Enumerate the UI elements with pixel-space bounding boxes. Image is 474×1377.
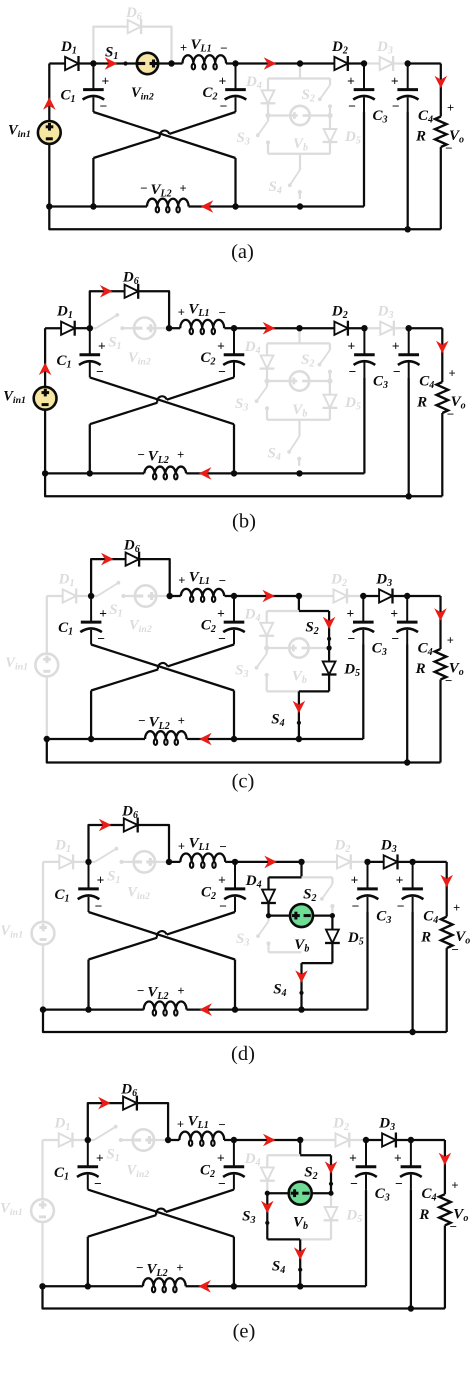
capacitor C2 (d) bbox=[234, 862, 236, 889]
node wire into bridge (e) bbox=[299, 1140, 301, 1155]
bridge top-left wire (c) bbox=[267, 610, 299, 612]
svg-text:−: − bbox=[140, 181, 147, 196]
svg-text:−: − bbox=[219, 305, 226, 320]
current arrow to load bbox=[440, 875, 453, 888]
bridge mid-left junction (b) bbox=[264, 378, 269, 383]
wire C2-node bbox=[235, 861, 302, 863]
capacitor C1 (d) bbox=[88, 862, 90, 889]
svg-text:−: − bbox=[136, 1260, 143, 1275]
svg-text:−: − bbox=[350, 1176, 358, 1191]
svg-text:−: − bbox=[451, 942, 458, 957]
wire left X-leg down bbox=[87, 960, 89, 1010]
node wire into bridge (c) bbox=[298, 596, 300, 611]
wire cross-connection C2-bottom to left (with hop) bbox=[168, 645, 235, 667]
diode D6 branch (c) bbox=[91, 559, 126, 596]
wire bottom return rail bbox=[43, 1286, 445, 1308]
wire C4-right rail bbox=[408, 62, 441, 64]
switch S3 (e) bbox=[266, 1193, 268, 1239]
current arrow through S1 bbox=[105, 57, 118, 70]
svg-text:+: + bbox=[98, 339, 106, 354]
wire left X-leg down bbox=[92, 158, 94, 207]
svg-text:+: + bbox=[392, 339, 400, 354]
current arrow through S3 bbox=[261, 1201, 274, 1214]
svg-text:+: + bbox=[177, 448, 184, 462]
diode D5 (b) bbox=[329, 381, 331, 395]
svg-text:R: R bbox=[418, 1207, 429, 1223]
node dots bbox=[85, 859, 91, 865]
svg-text:−: − bbox=[97, 631, 105, 646]
bridge mid-right junction (d) bbox=[330, 913, 335, 918]
svg-text:−: − bbox=[219, 898, 227, 913]
wire C4-right rail bbox=[409, 327, 443, 329]
svg-text:−: − bbox=[445, 141, 452, 156]
capacitor C1 (e) bbox=[87, 1140, 89, 1167]
wire cross-connection C1-bottom to right bbox=[91, 645, 234, 691]
switch S4 (d) bbox=[300, 963, 302, 1010]
svg-text:+: + bbox=[177, 1118, 184, 1132]
bridge top-right wire (d) bbox=[302, 876, 333, 878]
current arrow through L2 bbox=[199, 1003, 212, 1016]
bridge top-right wire (e) bbox=[300, 1154, 331, 1156]
current arrow through L2 bbox=[198, 1280, 211, 1293]
switch S2 (c) bbox=[328, 611, 330, 648]
wire left X-leg down bbox=[89, 424, 91, 473]
svg-text:+: + bbox=[180, 41, 187, 55]
current arrow up (input) bbox=[39, 363, 52, 376]
svg-text:+: + bbox=[394, 1151, 402, 1166]
svg-text:+: + bbox=[97, 873, 105, 888]
diode D3 (b) bbox=[364, 327, 380, 329]
voltage source Vin1 (e) bbox=[41, 1140, 43, 1199]
switch S1 (d) bbox=[89, 861, 95, 863]
wire left X-leg down bbox=[90, 691, 92, 740]
wire right X-leg down bbox=[233, 1237, 235, 1287]
switch S1 (b) bbox=[90, 327, 96, 329]
svg-text:−: − bbox=[138, 713, 145, 728]
wire C2-node bbox=[234, 595, 299, 597]
wire C4-right rail bbox=[411, 1139, 445, 1141]
svg-text:−: − bbox=[100, 99, 108, 114]
switch S2 (a) bbox=[329, 79, 331, 86]
voltage source Vin2 (b) bbox=[134, 318, 155, 339]
svg-text:+: + bbox=[176, 1261, 183, 1275]
switch S2 (e) bbox=[330, 1155, 332, 1193]
wire cross-connection C2-bottom to left (with hop) bbox=[167, 912, 235, 935]
svg-text:+: + bbox=[178, 839, 185, 853]
voltage source Vin2 (d) bbox=[134, 851, 155, 872]
wire left X-leg down bbox=[87, 1237, 89, 1287]
bridge bottom-left wire (a) bbox=[268, 153, 300, 155]
switch S4 (c) bbox=[298, 691, 300, 739]
svg-text:−: − bbox=[397, 898, 405, 913]
svg-text:+: + bbox=[177, 984, 184, 998]
bridge bottom-right wire (a) bbox=[300, 153, 330, 155]
wire cross-connection C1-bottom to right bbox=[89, 912, 236, 960]
diode D2 (b) bbox=[300, 327, 335, 329]
capacitor C2 (a) bbox=[235, 64, 237, 90]
current arrow to load bbox=[434, 608, 447, 621]
wire right X-leg down bbox=[234, 158, 236, 207]
svg-text:+: + bbox=[217, 1151, 225, 1166]
switch S4 (e) bbox=[299, 1239, 301, 1286]
svg-text:−: − bbox=[137, 447, 144, 462]
wire right X-leg down bbox=[233, 691, 235, 740]
node dots bbox=[87, 325, 93, 331]
svg-text:+: + bbox=[391, 74, 399, 89]
svg-text:+: + bbox=[349, 1151, 357, 1166]
inductor L2 (c) bbox=[47, 738, 145, 740]
svg-text:−: − bbox=[391, 631, 399, 646]
current arrow toward node bbox=[263, 322, 276, 335]
current arrow through S4 bbox=[294, 1247, 307, 1260]
svg-text:−: − bbox=[218, 631, 226, 646]
svg-text:−: − bbox=[220, 99, 228, 114]
svg-text:−: − bbox=[392, 99, 400, 114]
current arrow toward node bbox=[264, 57, 277, 70]
current arrow toward node bbox=[264, 856, 277, 869]
circuit panel (a) bbox=[8, 5, 464, 263]
svg-text:−: − bbox=[94, 1176, 102, 1191]
svg-text:−: − bbox=[395, 1176, 403, 1191]
svg-text:−: − bbox=[219, 839, 226, 854]
current arrow to load bbox=[436, 341, 449, 354]
current arrow toward node bbox=[262, 590, 275, 603]
battery source Vb (d) bbox=[269, 914, 290, 916]
svg-text:−: − bbox=[352, 898, 360, 913]
circuit panel (b) bbox=[3, 270, 465, 533]
voltage source Vin2 (a) bbox=[137, 53, 158, 74]
inductor L1 (a) bbox=[172, 62, 183, 64]
current arrow through S2 bbox=[323, 617, 336, 630]
node dots bbox=[88, 593, 94, 599]
wire cross-connection C1-bottom to right bbox=[90, 377, 234, 424]
svg-text:+: + bbox=[217, 606, 225, 621]
svg-text:+: + bbox=[451, 1179, 458, 1193]
capacitor C3 (e) bbox=[365, 1140, 367, 1167]
bridge mid-left junction (a) bbox=[265, 113, 270, 118]
svg-text:+: + bbox=[347, 74, 355, 89]
current arrow through D6 bbox=[98, 1097, 111, 1110]
svg-text:(c): (c) bbox=[232, 771, 255, 793]
diode D5 (c) bbox=[328, 648, 330, 662]
resistor R (a) bbox=[440, 64, 442, 117]
wire C2-node bbox=[234, 1139, 300, 1141]
current arrow through L2 bbox=[199, 467, 212, 480]
svg-text:−: − bbox=[220, 41, 227, 56]
capacitor C3 (b) bbox=[363, 328, 365, 355]
svg-text:−: − bbox=[349, 364, 357, 379]
diode D1 (d) bbox=[43, 861, 60, 863]
svg-text:+: + bbox=[447, 634, 454, 648]
bridge bottom-left wire (c) bbox=[267, 690, 299, 692]
svg-text:+: + bbox=[178, 574, 185, 588]
wire bottom return rail bbox=[47, 739, 441, 763]
resistor R (d) bbox=[446, 862, 448, 917]
diode D3 (a) bbox=[364, 62, 380, 64]
svg-text:R: R bbox=[416, 394, 427, 410]
resistor R (e) bbox=[444, 1140, 446, 1194]
diode D2 (d) bbox=[302, 861, 338, 863]
battery source Vb (b) bbox=[267, 380, 290, 382]
bridge top-right wire (a) bbox=[300, 77, 330, 79]
inductor L2 (e) bbox=[43, 1285, 143, 1287]
diode D5 (e) bbox=[330, 1193, 332, 1207]
diode D1 (b) bbox=[45, 327, 61, 329]
switch S1 (c) bbox=[91, 595, 97, 597]
bridge bottom-right wire (d) bbox=[302, 962, 333, 964]
diode D2 (a) bbox=[300, 62, 335, 64]
switch S3 (a) bbox=[267, 116, 269, 122]
wire C2-node bbox=[234, 327, 300, 329]
diode D6 branch (d) bbox=[89, 825, 125, 862]
resistor R (c) bbox=[439, 596, 441, 649]
wire C2-node bbox=[236, 62, 301, 64]
svg-text:+: + bbox=[348, 339, 356, 354]
svg-text:+: + bbox=[346, 606, 354, 621]
svg-text:+: + bbox=[217, 339, 225, 354]
wire C4-right rail bbox=[413, 861, 447, 863]
bridge mid-left junction (e) bbox=[265, 1191, 270, 1196]
svg-text:(e): (e) bbox=[233, 1321, 256, 1343]
resistor R (b) bbox=[441, 328, 443, 382]
diode D4 (b) bbox=[266, 343, 268, 355]
svg-text:(b): (b) bbox=[232, 511, 256, 533]
node dots bbox=[85, 1137, 91, 1143]
inductor L2 (a) bbox=[49, 205, 147, 207]
wire cross-connection C1-bottom to right bbox=[88, 1190, 234, 1237]
capacitor C1 (a) bbox=[92, 64, 94, 90]
node wire into bridge (a) bbox=[299, 64, 301, 79]
svg-text:R: R bbox=[415, 661, 426, 677]
battery source Vb (c) bbox=[267, 647, 290, 649]
wire cross-connection C2-bottom to left (with hop) bbox=[167, 377, 234, 399]
bridge bottom-right wire (e) bbox=[300, 1238, 331, 1240]
diode D6 branch (e) bbox=[88, 1103, 124, 1140]
current arrow through D6 bbox=[99, 819, 112, 832]
svg-text:(a): (a) bbox=[231, 241, 254, 263]
svg-text:R: R bbox=[420, 929, 431, 945]
svg-text:+: + bbox=[449, 366, 456, 380]
switch S1 (a) bbox=[93, 62, 137, 64]
node wire into bridge (d) bbox=[300, 862, 302, 878]
diode D6 branch (b) bbox=[90, 291, 125, 328]
svg-text:−: − bbox=[96, 364, 104, 379]
svg-text:+: + bbox=[102, 74, 110, 89]
diode D4 (c) bbox=[266, 611, 268, 623]
switch S2 (d) bbox=[331, 877, 333, 884]
diode D3 (e) bbox=[366, 1139, 382, 1141]
inductor L1 (e) bbox=[168, 1139, 179, 1141]
inductor L1 (d) bbox=[169, 861, 180, 863]
bridge mid-left junction (d) bbox=[266, 913, 271, 918]
svg-text:+: + bbox=[99, 606, 107, 621]
switch S1 (e) bbox=[88, 1139, 94, 1141]
current arrow through D6 bbox=[101, 553, 114, 566]
wire bottom return rail bbox=[43, 1010, 447, 1032]
current arrow toward node bbox=[263, 1134, 276, 1147]
svg-text:−: − bbox=[348, 99, 356, 114]
wire cross-connection C2-bottom to left (with hop) bbox=[166, 1190, 234, 1212]
diode D2 (c) bbox=[299, 595, 334, 597]
current arrow to load bbox=[435, 76, 448, 89]
svg-text:−: − bbox=[218, 364, 226, 379]
svg-text:−: − bbox=[218, 1176, 226, 1191]
current arrow through S4 bbox=[293, 701, 306, 714]
diode D3 (d) bbox=[368, 861, 385, 863]
wire right X-leg down bbox=[233, 424, 235, 473]
svg-text:−: − bbox=[450, 1219, 457, 1234]
switch S3 (c) bbox=[266, 648, 268, 654]
current arrow through L2 bbox=[199, 733, 212, 746]
wire C4-right rail bbox=[407, 595, 440, 597]
svg-text:−: − bbox=[393, 364, 401, 379]
capacitor C1 (b) bbox=[89, 328, 91, 355]
current arrow through D6 bbox=[100, 285, 113, 298]
svg-text:+: + bbox=[396, 873, 404, 888]
voltage source Vin2 (e) bbox=[133, 1129, 154, 1150]
diode D3 (c) bbox=[363, 595, 379, 597]
svg-text:+: + bbox=[178, 714, 185, 728]
bridge bottom-left wire (e) bbox=[267, 1238, 300, 1240]
svg-text:−: − bbox=[137, 983, 144, 998]
inductor L1 (b) bbox=[169, 327, 180, 329]
switch S3 (d) bbox=[267, 916, 269, 922]
svg-text:R: R bbox=[415, 129, 426, 145]
circuit panel (d) bbox=[0, 803, 470, 1065]
bridge bottom-left wire (b) bbox=[267, 419, 300, 421]
svg-text:+: + bbox=[447, 101, 454, 115]
capacitor C3 (a) bbox=[363, 64, 365, 90]
capacitor C4 (b) bbox=[408, 328, 410, 355]
diode D1 (a) bbox=[49, 62, 65, 64]
capacitor C2 (e) bbox=[233, 1140, 235, 1167]
capacitor C4 (e) bbox=[410, 1140, 412, 1167]
bridge top-right wire (b) bbox=[300, 342, 330, 344]
current arrow through L2 bbox=[201, 200, 214, 213]
switch S2 (b) bbox=[329, 343, 331, 350]
capacitor C4 (a) bbox=[407, 64, 409, 90]
node dots bbox=[90, 60, 96, 66]
circuit panel (c) bbox=[5, 538, 463, 793]
voltage source Vin2 (c) bbox=[135, 585, 156, 606]
switch S4 (a) bbox=[299, 154, 301, 170]
diode D1 (e) bbox=[43, 1139, 60, 1141]
svg-text:+: + bbox=[96, 1151, 104, 1166]
capacitor C1 (c) bbox=[90, 596, 92, 622]
svg-text:−: − bbox=[445, 673, 452, 688]
wire bottom return rail bbox=[49, 207, 441, 230]
svg-text:+: + bbox=[351, 873, 359, 888]
svg-text:−: − bbox=[447, 407, 454, 422]
inductor L1 (c) bbox=[170, 595, 181, 597]
voltage source Vin1 (a) bbox=[48, 64, 50, 122]
diode D4 (a) bbox=[267, 79, 269, 91]
bridge top-left wire (a) bbox=[268, 77, 300, 79]
diode D5 (d) bbox=[331, 916, 333, 930]
inductor L2 (d) bbox=[43, 1008, 144, 1010]
capacitor C2 (c) bbox=[233, 596, 235, 622]
svg-text:+: + bbox=[178, 306, 185, 320]
svg-text:+: + bbox=[453, 901, 460, 915]
diode D2 (e) bbox=[300, 1139, 336, 1141]
bridge bottom-right wire (b) bbox=[300, 419, 330, 421]
circuit panel (e) bbox=[0, 1082, 468, 1343]
wire cross-connection C2-bottom to left (with hop) bbox=[169, 112, 235, 134]
switch S4 (b) bbox=[298, 420, 300, 436]
node wire into bridge (b) bbox=[298, 328, 300, 343]
capacitor C4 (c) bbox=[406, 596, 408, 622]
voltage source Vin1 (d) bbox=[42, 862, 44, 922]
svg-text:+: + bbox=[218, 873, 226, 888]
svg-text:(d): (d) bbox=[231, 1043, 255, 1065]
svg-text:−: − bbox=[95, 898, 103, 913]
svg-text:+: + bbox=[179, 182, 186, 196]
current arrow through S4 bbox=[295, 970, 308, 983]
capacitor C2 (b) bbox=[233, 328, 235, 355]
current arrow up (input) bbox=[43, 97, 56, 110]
bridge mid-right junction (c) bbox=[327, 645, 332, 650]
capacitor C3 (d) bbox=[367, 862, 369, 889]
battery source Vb (a) bbox=[268, 114, 290, 116]
bridge mid-left junction (c) bbox=[264, 645, 269, 650]
wire right X-leg down bbox=[234, 960, 236, 1010]
diode D4 (e) bbox=[266, 1155, 268, 1167]
svg-text:−: − bbox=[219, 573, 226, 588]
bridge top-left wire (e) bbox=[267, 1154, 300, 1156]
diode D1 (c) bbox=[47, 595, 63, 597]
capacitor C3 (c) bbox=[362, 596, 364, 622]
wire bottom return rail bbox=[45, 473, 442, 496]
current arrow through S2 bbox=[325, 1161, 338, 1174]
diode D6 branch (a) bbox=[93, 27, 128, 64]
diode D4 (d) bbox=[267, 877, 269, 890]
bridge top-left wire (b) bbox=[267, 342, 300, 344]
bridge top-right wire (c) bbox=[299, 610, 329, 612]
bridge mid-right junction (b) bbox=[327, 378, 332, 383]
wire cross-connection C1-bottom to right bbox=[93, 112, 235, 158]
svg-text:+: + bbox=[390, 606, 398, 621]
current arrow to load bbox=[439, 1153, 452, 1166]
voltage source Vin1 (b) bbox=[44, 328, 46, 387]
svg-text:−: − bbox=[218, 1117, 225, 1132]
inductor L2 (b) bbox=[45, 472, 144, 474]
capacitor C4 (d) bbox=[412, 862, 414, 889]
battery source Vb (e) bbox=[267, 1192, 288, 1194]
svg-text:+: + bbox=[219, 74, 227, 89]
bridge mid-right junction (a) bbox=[327, 113, 332, 118]
bridge bottom-right wire (c) bbox=[299, 690, 329, 692]
svg-text:−: − bbox=[347, 631, 355, 646]
diode D5 (a) bbox=[329, 116, 331, 130]
voltage source Vin1 (c) bbox=[46, 596, 48, 654]
bridge mid-right junction (e) bbox=[328, 1191, 333, 1196]
bridge bottom-left wire (d) bbox=[269, 951, 302, 953]
bridge top-left wire (d) bbox=[269, 876, 302, 878]
switch S3 (b) bbox=[266, 381, 268, 387]
